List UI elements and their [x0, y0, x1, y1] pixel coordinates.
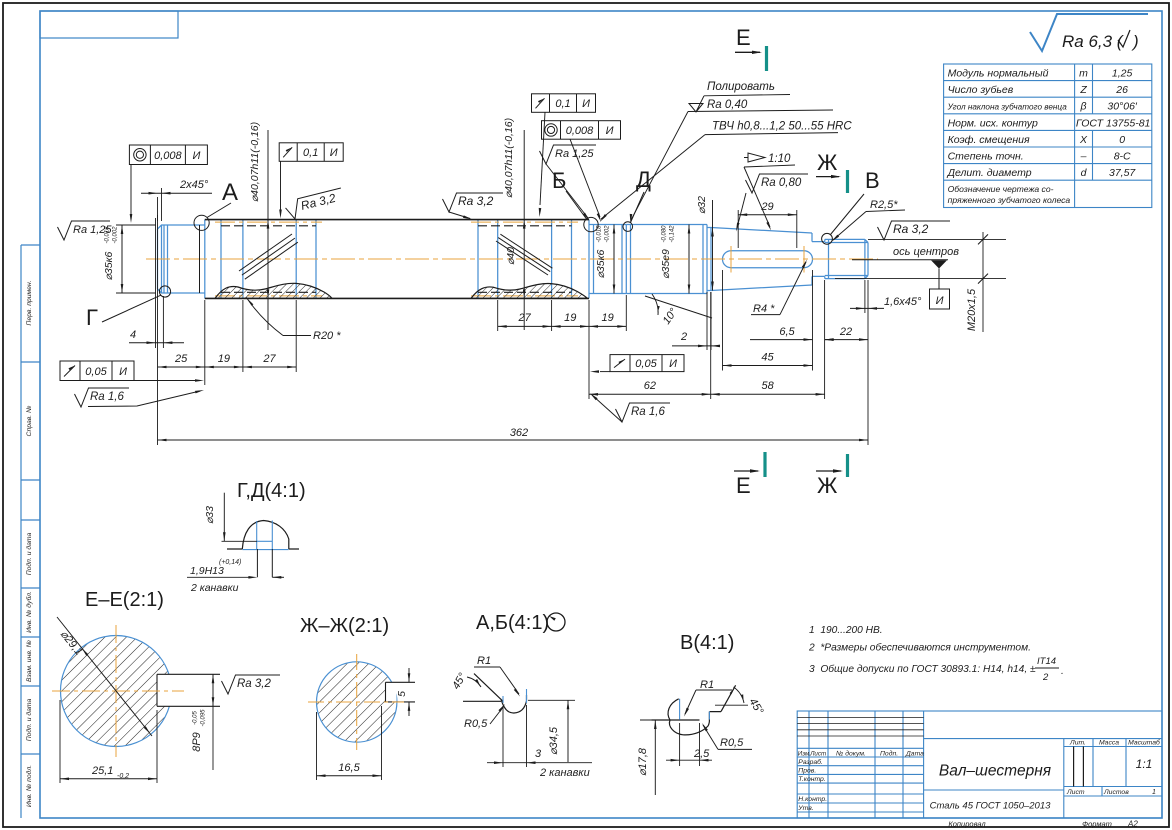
section Zh-Zh keyway cut [386, 682, 397, 702]
section Zh-Zh hatched circle [317, 662, 397, 742]
svg-text:⌀40,07h11(-0,16): ⌀40,07h11(-0,16) [503, 118, 515, 198]
svg-text:62: 62 [644, 380, 656, 392]
svg-text:2: 2 [1042, 672, 1049, 683]
svg-text:⌀40: ⌀40 [505, 247, 517, 265]
roughness Ra 1,25 left end [58, 221, 111, 240]
svg-text:И: И [606, 125, 614, 137]
svg-text:2 канавки: 2 канавки [539, 767, 590, 779]
svg-text:0,05: 0,05 [635, 358, 657, 370]
step face at x589 and journal2 d35k6 [589, 220, 626, 299]
svg-text:Число зубьев: Число зубьев [948, 84, 1014, 96]
detail A,B dimension 3 and 2 grooves [503, 705, 527, 767]
gear parameter table [944, 64, 1152, 208]
taper 1:10 cone [711, 228, 812, 291]
svg-text:Г: Г [86, 305, 98, 330]
svg-text:Полировать: Полировать [707, 81, 775, 93]
svg-text:-0,002: -0,002 [113, 226, 119, 244]
svg-text:(+0,14): (+0,14) [219, 559, 241, 566]
svg-text:R0,5: R0,5 [720, 737, 744, 749]
svg-text:Делит. диаметр: Делит. диаметр [947, 167, 1032, 179]
svg-text:3 Общие допуски по ГОСТ 30893: 3 Общие допуски по ГОСТ 30893.1: Н14, h1… [809, 663, 1036, 675]
svg-text:1,9Н13: 1,9Н13 [190, 565, 224, 577]
svg-text:R4 *: R4 * [753, 303, 775, 315]
svg-text:Подп.: Подп. [880, 750, 898, 758]
shaft centerline [146, 258, 878, 260]
dimension d40,07h11 gear1 [267, 130, 269, 330]
svg-text:Пров.: Пров. [798, 768, 816, 775]
gear1 helix lines [239, 234, 552, 279]
svg-text:Лит.: Лит. [1069, 740, 1086, 747]
svg-text:Масса: Масса [1099, 740, 1119, 747]
section E-E keyway cut [157, 674, 172, 706]
svg-text:Ra 1,25: Ra 1,25 [73, 224, 112, 236]
svg-text:2 канавки: 2 канавки [190, 582, 239, 594]
detail G,D groove profile [227, 521, 299, 550]
svg-text:8-С: 8-С [1114, 151, 1131, 163]
label R20 runout radius [246, 297, 283, 336]
svg-text:1,25: 1,25 [1112, 68, 1133, 80]
tolerance frame cylindricity 0,008 left [129, 145, 207, 165]
svg-text:19: 19 [602, 312, 614, 324]
svg-text:Норм. исх. контур: Норм. исх. контур [948, 117, 1038, 129]
gear2 helix lines [496, 241, 548, 275]
svg-text:ТВЧ h0,8...1,2 50...55 HRC: ТВЧ h0,8...1,2 50...55 HRC [712, 121, 852, 133]
taper symbol 1:10 [744, 153, 765, 162]
svg-text:Е: Е [736, 25, 751, 50]
svg-text:⌀35к6: ⌀35к6 [595, 249, 607, 278]
svg-text:1:10: 1:10 [768, 153, 791, 165]
svg-text:X: X [1079, 134, 1088, 146]
detail G,D dimension 1,9H13 [187, 576, 250, 578]
roughness Ra 1,6 right [616, 403, 671, 422]
svg-text:Е–Е(2:1): Е–Е(2:1) [85, 589, 164, 611]
thread M20x1.5 section [825, 239, 868, 278]
svg-text:⌀35к6: ⌀35к6 [103, 251, 115, 280]
svg-text:-0,002: -0,002 [605, 225, 611, 243]
section E-E centerlines [52, 690, 184, 692]
svg-text:Ra 1,6: Ra 1,6 [90, 391, 124, 403]
svg-text:Обозначение чертежа со-: Обозначение чертежа со- [948, 184, 1054, 194]
title block Lit subdividers [1073, 747, 1075, 787]
dimension 22 thread [825, 339, 868, 341]
svg-text:Дата: Дата [905, 751, 924, 758]
svg-text:Ж–Ж(2:1): Ж–Ж(2:1) [300, 615, 389, 637]
svg-text:-0,095: -0,095 [201, 709, 207, 727]
tolerance frame runout 0,05 left [60, 361, 134, 381]
svg-text:Листов: Листов [1103, 789, 1129, 796]
svg-text:Ra 3,2: Ra 3,2 [237, 678, 271, 690]
detail V dimension 2,5 [680, 723, 700, 766]
section Zh-Zh dimension 5 [408, 668, 410, 682]
svg-text:45: 45 [761, 352, 774, 364]
groove G marker circle and leader [159, 286, 170, 297]
svg-text:29: 29 [760, 201, 773, 213]
svg-text:В: В [865, 168, 880, 193]
svg-text:m: m [1079, 68, 1088, 80]
svg-text:58: 58 [762, 380, 775, 392]
general roughness Ra 6,3 [1030, 14, 1148, 51]
svg-text:2: 2 [680, 331, 687, 343]
svg-text:2,5: 2,5 [693, 748, 710, 760]
svg-text:Разраб.: Разраб. [798, 758, 823, 766]
svg-text:-0,018: -0,018 [597, 225, 603, 243]
svg-text:ГОСТ 13755-81: ГОСТ 13755-81 [1076, 117, 1150, 129]
dimension 1,6x45 chamfer [850, 307, 884, 309]
svg-text:И: И [119, 366, 127, 378]
title block frame [797, 711, 1162, 818]
datum I on axis of centers [931, 260, 947, 268]
section E-E hatched circle [61, 636, 172, 747]
svg-text:Z: Z [1079, 84, 1087, 96]
svg-text:Формат: Формат [1082, 820, 1112, 829]
tolerance frame runout 0,05 right [610, 355, 684, 372]
svg-text:0,1: 0,1 [303, 147, 318, 159]
svg-text:1: 1 [1152, 789, 1156, 796]
svg-text:Сталь 45 ГОСТ 1050–2013: Сталь 45 ГОСТ 1050–2013 [930, 801, 1052, 812]
svg-text:Взам. инв. №: Взам. инв. № [26, 640, 33, 682]
section E-E diameter 29,1 [57, 617, 152, 736]
svg-text:8Р9: 8Р9 [191, 732, 203, 752]
gear2 pitch lines (orange) [471, 221, 578, 223]
svg-text:16,5: 16,5 [338, 762, 360, 774]
gear2 root dashed lines [478, 225, 572, 227]
tolerance frame runout 0,1 above B [532, 94, 596, 113]
svg-text:Ж: Ж [817, 150, 838, 175]
keyway slot center marks [730, 246, 732, 273]
section Zh-Zh dimension 16,5 [317, 706, 382, 780]
svg-text:22: 22 [839, 326, 852, 338]
svg-text:0,008: 0,008 [566, 125, 594, 137]
groove G walls [164, 225, 168, 293]
keyway slot on taper [723, 251, 813, 268]
svg-text:Ra 0,40: Ra 0,40 [707, 99, 748, 111]
shaft main OD outline d40 [205, 220, 589, 299]
svg-text:И: И [582, 98, 590, 110]
section Zh-Zh centerlines [308, 701, 404, 703]
svg-text:И: И [192, 150, 200, 162]
svg-text:2 *Размеры обеспечиваются инс: 2 *Размеры обеспечиваются инструментом. [808, 642, 1031, 654]
svg-text:А2: А2 [1127, 820, 1138, 829]
svg-text:19: 19 [564, 312, 576, 324]
svg-text:В(4:1): В(4:1) [680, 632, 734, 654]
groove A marker circle and leader [199, 225, 201, 293]
svg-text:Инв. № дубл.: Инв. № дубл. [25, 591, 33, 633]
svg-text:Лист: Лист [1066, 789, 1085, 796]
svg-text:Ra 1,25: Ra 1,25 [555, 148, 594, 160]
svg-text:26: 26 [1115, 84, 1128, 96]
shaft journal d35k6 left [158, 220, 869, 299]
svg-text:1:1: 1:1 [1136, 757, 1153, 771]
svg-text:0,05: 0,05 [85, 366, 107, 378]
dimension 362 overall [158, 439, 869, 441]
dimension 19 left [205, 366, 243, 368]
svg-text:Н.контр.: Н.контр. [798, 796, 827, 803]
section E-E roughness Ra 3,2 [222, 675, 281, 694]
svg-text:IT14: IT14 [1037, 656, 1056, 667]
gear2 tooth section hatched [471, 283, 588, 298]
svg-text:Лист: Лист [809, 751, 826, 758]
angle 10 deg label [645, 296, 712, 318]
axis extension right [852, 259, 948, 261]
svg-text:Угол наклона зубчатого венца: Угол наклона зубчатого венца [947, 103, 1068, 112]
svg-text:Модуль нормальный: Модуль нормальный [948, 68, 1049, 80]
svg-text:R1: R1 [700, 679, 714, 691]
svg-text:Масштаб: Масштаб [1128, 739, 1161, 747]
svg-text:19: 19 [218, 353, 230, 365]
dimension 62 [589, 393, 711, 395]
gear1 root dashed lines [221, 225, 316, 227]
dimension d40,07h11 gear2 [523, 130, 525, 330]
svg-text:-0,080: -0,080 [662, 225, 668, 243]
roughness Ra 1,6 left [75, 388, 130, 407]
svg-text:Степень точн.: Степень точн. [948, 151, 1024, 163]
svg-text:И: И [936, 295, 944, 307]
svg-text:2х45°: 2х45° [179, 179, 209, 191]
svg-text:⌀35е9: ⌀35е9 [660, 249, 672, 279]
dimension 4 (groove position) [129, 342, 184, 344]
title block upper small rows [797, 717, 923, 736]
groove D marker circle and leader [623, 222, 633, 232]
roughness Ra 0,80 taper [746, 174, 809, 193]
chamfer dimension 2x45 [158, 188, 162, 221]
svg-text:1 190...200 НВ.: 1 190...200 НВ. [809, 625, 883, 636]
dimension 27 right gear [498, 325, 552, 327]
step face at x205 [204, 220, 206, 299]
step 2mm at x707-711 [707, 228, 711, 291]
roughness Ra 1,25 journal2 [540, 145, 597, 164]
svg-text:0: 0 [1119, 134, 1125, 146]
dimension d35k6 left journal [116, 225, 156, 293]
svg-text:ось центров: ось центров [893, 246, 959, 258]
svg-text:А: А [222, 179, 238, 206]
svg-text:Справ. №: Справ. № [26, 406, 33, 437]
gear1 boundary verticals [221, 220, 316, 299]
svg-text:Ra 3,2: Ra 3,2 [458, 194, 494, 208]
dimension 19 journal2 [589, 325, 626, 327]
svg-text:R1: R1 [477, 655, 491, 667]
svg-text:6,5: 6,5 [779, 326, 795, 338]
dimension 2 step [672, 345, 719, 347]
svg-text:И: И [669, 358, 677, 370]
svg-text:–: – [1080, 151, 1087, 163]
section E-E dimension 8P9 [212, 674, 214, 706]
groove B marker circle and leader [584, 217, 598, 231]
svg-text:R20 *: R20 * [313, 330, 341, 342]
svg-text:-0,05: -0,05 [193, 711, 199, 725]
svg-text:-0,142: -0,142 [670, 225, 676, 243]
groove V marker circle and leader [822, 233, 833, 244]
dimension 58 [711, 393, 825, 395]
dimension d35e9 [688, 225, 690, 294]
svg-text:Е: Е [736, 473, 751, 498]
svg-text:Ra 3,2: Ra 3,2 [893, 222, 929, 236]
svg-text:⌀34,5: ⌀34,5 [548, 726, 560, 755]
left margin stamp column [20, 245, 22, 818]
svg-text:Ra 6,3 (: Ra 6,3 ( [1062, 32, 1125, 51]
svg-text:-0,2: -0,2 [117, 773, 129, 780]
svg-text:Инв. № подл.: Инв. № подл. [25, 765, 33, 807]
svg-text:30°06′: 30°06′ [1107, 101, 1138, 113]
svg-text:Перв. примен.: Перв. примен. [26, 280, 33, 325]
thread M20 dimension [868, 238, 1006, 240]
svg-text:37,57: 37,57 [1109, 167, 1136, 179]
svg-text:β: β [1080, 101, 1087, 113]
svg-text:4: 4 [130, 329, 136, 341]
roughness Ra 3,2 gear1 [284, 188, 345, 221]
gear1 pitch lines (orange) [215, 221, 322, 223]
svg-text:3: 3 [535, 748, 542, 760]
svg-text:Т.контр.: Т.контр. [798, 776, 826, 783]
svg-text:0,1: 0,1 [555, 98, 570, 110]
section E-E dimension 25,1 [60, 700, 157, 783]
svg-text:25: 25 [174, 353, 188, 365]
dimension 19 mid [552, 325, 589, 327]
detail V groove profile [652, 685, 736, 735]
thread relief groove V [812, 233, 825, 285]
svg-text:Утв.: Утв. [797, 805, 814, 812]
svg-text:⌀17,8: ⌀17,8 [637, 747, 649, 776]
top-left stamp cell [40, 11, 178, 38]
svg-text:пряженного зубчатого колеса: пряженного зубчатого колеса [948, 195, 1071, 205]
svg-text:Ra 0,80: Ra 0,80 [761, 177, 802, 189]
dimension 27 left [243, 366, 296, 368]
svg-text:М20х1,5: М20х1,5 [966, 288, 978, 331]
svg-text:⌀40,07h11(-0,16): ⌀40,07h11(-0,16) [249, 122, 261, 202]
extension lines below shaft [156, 215, 869, 445]
dimension 29 keyway straight part [738, 210, 797, 248]
tolerance frame runout 0,1 gear1 [279, 143, 343, 162]
svg-text:⌀32: ⌀32 [696, 196, 708, 214]
svg-text:Вал–шестерня: Вал–шестерня [939, 763, 1051, 780]
svg-text:Ra 1,6: Ra 1,6 [631, 406, 665, 418]
svg-text:): ) [1131, 32, 1139, 51]
svg-text:5: 5 [396, 691, 408, 697]
dimension 45 keyway [723, 365, 813, 367]
svg-text:0,008: 0,008 [154, 150, 182, 162]
svg-text:⌀33: ⌀33 [204, 506, 216, 524]
svg-text:Изм.: Изм. [798, 751, 811, 758]
svg-text:362: 362 [510, 427, 528, 439]
svg-text:Ж: Ж [817, 473, 838, 498]
dimension d35k6 journal2 [613, 225, 615, 294]
svg-text:1,6х45°: 1,6х45° [884, 296, 922, 308]
dimension 6,5 groove V [750, 339, 806, 341]
svg-text:25,1: 25,1 [91, 765, 113, 777]
roughness Ra 3,2 gear2 [443, 193, 504, 212]
roughness Ra 3,2 thread [878, 221, 951, 240]
svg-text:Коэф. смещения: Коэф. смещения [948, 134, 1030, 146]
svg-text:Подп. и дата: Подп. и дата [25, 533, 33, 576]
gear1 tooth section hatched [215, 283, 332, 298]
tolerance frame cylindricity 0,008 journal2 [542, 121, 621, 140]
section d35e9 [626, 225, 707, 294]
gear2 boundary verticals [478, 220, 572, 299]
svg-text:R2,5*: R2,5* [870, 199, 898, 211]
svg-text:Подп. и дата: Подп. и дата [25, 699, 33, 742]
dimension 25 [158, 366, 205, 368]
svg-text:27: 27 [262, 353, 276, 365]
detail A,B groove profile [463, 674, 527, 713]
svg-text:Копировал: Копировал [948, 820, 986, 829]
svg-text:R0,5: R0,5 [464, 718, 488, 730]
svg-text:.: . [1061, 666, 1064, 677]
svg-text:№ докум.: № докум. [836, 750, 866, 758]
dimension d32 taper start [712, 200, 714, 291]
svg-text:И: И [330, 147, 338, 159]
svg-text:Г,Д(4:1): Г,Д(4:1) [237, 480, 306, 502]
svg-text:А,Б(4:1): А,Б(4:1) [476, 612, 549, 634]
